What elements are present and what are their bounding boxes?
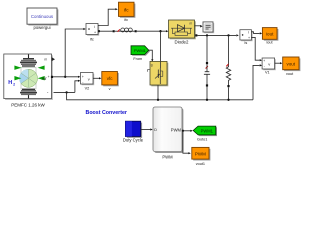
wire Ifc out to inductor [98,30,100,32]
svg-text:PWM1: PWM1 [134,48,147,53]
node mosfet rail [157,99,159,101]
goto tag PWM (orange) [192,147,211,166]
svg-text:Boost Converter: Boost Converter [86,110,128,116]
svg-text:+: + [248,36,250,40]
svg-text:m: m [44,57,47,61]
svg-text:+: + [48,75,50,79]
ground rail [67,92,253,99]
inductor L [113,28,137,32]
wire PWM branch to goto2 [183,131,189,153]
svg-text:PWM: PWM [195,151,206,156]
node resistor tap [227,34,229,36]
svg-text:Duty Cycle: Duty Cycle [123,137,144,142]
wire node down to mosfet drain [160,31,162,62]
wire output rail [197,34,236,36]
svg-text:iout: iout [266,32,274,37]
svg-text:vfc: vfc [107,76,114,81]
svg-text:powergui: powergui [34,25,51,30]
voltage measurement V2 [81,73,95,91]
svg-text:V1: V1 [265,70,270,74]
svg-text:+: + [82,75,84,79]
unconnected m port arrow [52,57,55,61]
wire duty cycle to PWM gen [141,129,151,131]
svg-text:v: v [88,76,90,81]
svg-text:vout: vout [286,72,294,76]
svg-text:PEMFC 1.26 kW: PEMFC 1.26 kW [11,102,45,107]
svg-text:Diode2: Diode2 [175,39,189,44]
constant block Duty Cycle [123,121,144,142]
wire PWM out to goto1 [182,130,191,132]
svg-text:vout1: vout1 [196,162,205,166]
capacitor C [204,35,210,101]
svg-text:+: + [263,59,265,63]
bottom electrode stack [22,89,35,90]
powergui block (Continuous) [27,8,58,30]
svg-text:From: From [133,57,142,61]
current measurement Is [240,30,253,45]
bottom electrode pin [28,95,30,98]
transistor Q1 (Mosfet) [148,61,169,86]
svg-text:Ifc: Ifc [90,38,94,42]
wire Ifc signal to ifc goto [98,9,116,25]
fuel cell stack PEMFC 1.26 kW [4,54,55,107]
node on + rail [64,76,66,78]
svg-text:Goto1: Goto1 [197,138,207,142]
goto tag vfc (orange) [102,72,119,92]
svg-text:-: - [264,64,265,68]
goto tag Goto1 (green PWM1) [193,126,217,142]
svg-text:Continuous: Continuous [31,14,54,19]
wire Is elec to V1 plus [251,37,259,60]
arrow into Is [236,34,238,36]
goto tag ifc (orange) [119,2,136,22]
top electrode stack [23,58,34,60]
svg-text:PWM1: PWM1 [201,128,214,133]
svg-text:PWM: PWM [162,154,173,159]
top electrode pin [28,54,30,58]
wire from tag to mosfet gate [149,50,153,59]
node capacitor tap [206,34,208,36]
Air inlet arrows [38,66,45,70]
svg-text:ifc: ifc [124,18,128,22]
svg-text:Air: Air [42,76,48,81]
wire Is signal to iout [251,32,259,34]
arrow into diode [166,30,168,32]
H2 inlet arrows [14,66,21,70]
wire diode m to scope [195,25,201,27]
mosfet m stub [148,70,150,72]
wire rail riser to V1 minus [253,65,260,99]
scope block [203,22,214,33]
arrow into Ifc [83,28,85,30]
wire PEMFC - to V2 minus [54,91,75,93]
svg-text:iout: iout [266,41,273,45]
wire V2 out to vfc [93,77,99,79]
svg-text:g: g [151,63,153,67]
wire V1 out to vout [275,62,280,64]
cell circle [20,69,38,87]
current measurement Ifc [86,24,99,42]
resistor R load [226,35,230,101]
diode D (Diode2) [169,20,196,44]
node drain [159,30,161,32]
svg-text:D: D [154,128,157,132]
node minus wire [65,91,67,93]
wire L to diode node [137,30,167,32]
svg-text:v: v [109,87,111,91]
svg-text:Is: Is [244,41,247,45]
svg-text:V2: V2 [85,86,90,90]
PWM generator block [153,107,183,159]
goto tag vout (orange) [283,57,301,76]
wire + rail vertical up to Ifc [65,29,83,77]
membrane frame [21,68,36,90]
wire PEMFC + to V2 plus [51,76,53,78]
svg-text:PWM: PWM [171,127,182,132]
svg-text:+: + [94,31,96,35]
svg-text:m: m [190,22,193,26]
goto tag iout (orange) [262,28,278,45]
svg-text:2: 2 [13,82,15,86]
svg-text:vout: vout [287,61,296,66]
from tag PWM1 (green) [131,46,150,61]
svg-text:H: H [8,80,12,86]
voltage measurement V1 [262,58,276,74]
diode k port square [195,34,197,36]
svg-text:v: v [268,61,270,66]
svg-text:ifc: ifc [124,8,129,13]
wire mosfet source to rail [157,85,159,100]
